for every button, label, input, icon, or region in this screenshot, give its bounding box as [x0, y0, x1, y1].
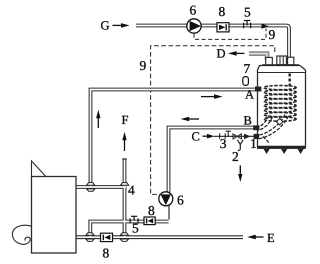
wire pump 6 bottom outlet (single line) [168, 205, 170, 220]
flow arrow at G (right) [113, 24, 125, 26]
svg-text:6: 6 [177, 192, 184, 207]
node C tank port [254, 134, 260, 139]
riser 4 open top cap [122, 158, 127, 160]
wire C line (thin) [214, 135, 254, 137]
coil outlet curves to side ports [258, 115, 289, 144]
flow arrow on A pipe (right) [201, 96, 217, 98]
flow arrow at D (left) [232, 52, 245, 54]
tee fitting on boiler supply at riser [87, 183, 95, 192]
svg-text:G: G [101, 19, 110, 33]
svg-text:F: F [122, 113, 129, 127]
valve 3 on C line [220, 131, 231, 139]
boiler body [32, 177, 77, 254]
svg-text:6: 6 [190, 2, 197, 17]
valve 5 mid (return run) [130, 216, 138, 223]
flow arrow F above riser 4 (up) [124, 135, 126, 151]
wire D pipe core [249, 54, 267, 60]
wire D pipe (gray) into tank top [249, 54, 267, 60]
svg-text:8: 8 [219, 4, 226, 19]
diamond mark at coil bottom [277, 118, 283, 125]
tank foot middle [281, 149, 287, 154]
tank top fitting middle [277, 56, 287, 65]
svg-text:C: C [192, 129, 200, 143]
wire pump return run and drop to bottom pipe [90, 222, 168, 238]
tank foot right [298, 149, 304, 154]
check valve 8 mid (return run) [144, 217, 155, 225]
wire core G supply pipe [136, 26, 289, 58]
svg-text:4: 4 [128, 182, 135, 197]
wire core B pipe [169, 128, 257, 193]
tee fitting at riser 4 cross [121, 183, 129, 186]
tank bottom plate [257, 146, 306, 149]
flow arrow on riser (up) [97, 113, 99, 128]
wire core pump return run [90, 222, 168, 238]
boiler flue diagonal [32, 161, 46, 177]
drain strainer 2 (Y symbol) [237, 140, 243, 151]
tee fitting on bottom pipe at riser 4 [120, 233, 128, 242]
tank foot left [264, 149, 270, 154]
control line (dashed) from pump 6 top to sensor 9 on hot pipe [194, 29, 266, 40]
flow arrow on B pipe (left) [184, 118, 199, 120]
wire core boiler supply stub [77, 186, 127, 188]
node A tank port [255, 87, 261, 92]
wire riser 4 (vent pipe) [123, 160, 127, 237]
wire bottom E return pipe [77, 235, 244, 239]
flow arrow at C (right) [203, 135, 210, 137]
tank shoulder line [258, 72, 306, 74]
svg-text:2: 2 [232, 149, 239, 164]
valve 5 top [244, 21, 251, 29]
svg-text:B: B [244, 114, 252, 128]
wire G supply pipe (top, into tank top) [136, 26, 289, 58]
pump 6 top [187, 19, 201, 33]
coil feed drop (hidden, dashed) [289, 74, 291, 89]
svg-text:A: A [245, 88, 254, 102]
flow arrow at E (left) [250, 236, 264, 238]
pump 6 bottom [159, 192, 173, 206]
tank body (storage cylinder) [258, 66, 306, 147]
drain flow arrow (down) [239, 166, 241, 177]
svg-text:5: 5 [132, 220, 139, 235]
svg-text:1: 1 [250, 136, 257, 151]
tank top fitting middle inner lines [279, 56, 281, 64]
svg-text:8: 8 [103, 245, 110, 260]
svg-text:8: 8 [148, 203, 155, 218]
svg-text:9: 9 [140, 58, 147, 73]
tank top fitting right (G inlet) [288, 57, 294, 65]
node B tank port [253, 125, 259, 130]
wire core A pipe and riser [91, 90, 257, 188]
svg-text:E: E [267, 231, 275, 245]
tank top flange line [262, 64, 299, 66]
svg-text:3: 3 [220, 136, 227, 151]
wire boiler supply stub [77, 185, 127, 189]
check valve 8 bottom (E pipe) [101, 233, 113, 241]
heat exchanger coil inside tank [264, 86, 296, 122]
wire core bottom E pipe [77, 236, 244, 238]
check valve 8 top [217, 23, 229, 32]
svg-text:7: 7 [244, 61, 251, 76]
bowtie valve on C line [233, 134, 241, 139]
sensor 7 capsule on A pipe [243, 77, 249, 86]
svg-text:D: D [217, 47, 226, 61]
svg-text:5: 5 [244, 4, 251, 19]
tank top fitting left (D inlet) [266, 57, 273, 65]
wire core riser 4 [124, 160, 126, 237]
tee fitting on bottom pipe at return drop [86, 233, 94, 242]
svg-text:9: 9 [269, 27, 276, 42]
wire B pipe and drop to pump 6 top [169, 128, 257, 193]
sensor 9 mark on G pipe [262, 24, 269, 29]
control zone boundary 9 (dash-dot) from tank top to pump 6 bottom [151, 46, 275, 195]
check valve 1 into tank (filled) [244, 134, 251, 140]
wire A pipe and left riser down to boiler tee [91, 90, 257, 188]
boiler side loop (siphon hook) [12, 225, 31, 244]
